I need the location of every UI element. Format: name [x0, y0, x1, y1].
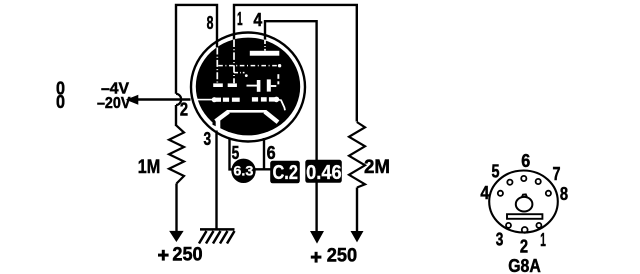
resistor 1M [169, 125, 184, 183]
svg-text:4: 4 [480, 183, 489, 203]
wire hop over input line [176, 94, 181, 105]
heater voltage circle 6.3 [231, 159, 255, 183]
svg-text:8: 8 [560, 184, 568, 204]
svg-text:2M: 2M [364, 156, 390, 178]
svg-text:1: 1 [540, 230, 546, 250]
internal connection specks right [277, 74, 279, 79]
internal dash-dot line B [234, 72, 245, 74]
svg-text:0.46: 0.46 [306, 162, 342, 184]
svg-text:2: 2 [520, 236, 528, 256]
svg-text:0: 0 [56, 92, 65, 112]
wire from hop to 1M [175, 105, 177, 126]
pin1 internal dashed lead [233, 40, 235, 84]
wire 0.46 to +250 arrow [315, 183, 317, 234]
internal dash-dot line A [218, 65, 279, 67]
svg-text:5: 5 [232, 143, 240, 163]
socket center hole with keyway [516, 197, 533, 212]
svg-text:2: 2 [180, 100, 188, 120]
hole 6 [521, 176, 526, 181]
svg-text:1M: 1M [138, 156, 161, 178]
svg-text:4: 4 [253, 10, 262, 30]
svg-text:8: 8 [207, 13, 214, 33]
wire top rail right (pin1 to 2M) [233, 4, 358, 122]
anode plate bar [250, 51, 279, 56]
svg-text:6.3: 6.3 [233, 163, 254, 178]
value box 0.46 [305, 160, 342, 183]
svg-text:–20V: –20V [97, 95, 131, 112]
hole 2 [522, 227, 528, 233]
value box C.2 [270, 161, 300, 184]
tube interior lower-left extension [213, 117, 230, 132]
svg-text:250: 250 [327, 245, 357, 266]
pin8 internal dashed lead [216, 48, 218, 84]
socket slot [507, 214, 542, 219]
hole 4 [498, 191, 503, 196]
wire 1M to +250 arrow [175, 184, 177, 234]
plus sign right [311, 252, 322, 263]
ground [199, 229, 235, 243]
resistor 2M [349, 122, 365, 188]
arrowhead +250 middle [311, 231, 324, 242]
target electrode (trapezoid) [227, 110, 266, 113]
arrowhead +250 left [170, 231, 183, 241]
hole 5 [507, 180, 512, 185]
hole 7 [536, 179, 541, 184]
deflection electrode plates [247, 85, 258, 87]
arrowhead +250 right [351, 231, 363, 241]
socket pin holes [498, 176, 551, 233]
svg-text:1: 1 [237, 9, 243, 29]
svg-text:250: 250 [172, 245, 202, 266]
tube internal electrodes (white) [197, 40, 285, 132]
tube V1 black interior disc [196, 38, 300, 136]
svg-text:6: 6 [267, 143, 276, 163]
hole 8 [546, 191, 551, 196]
arrowhead input (points left) [127, 95, 138, 104]
tube envelope [191, 33, 305, 142]
svg-text:C.2: C.2 [272, 162, 298, 184]
socket pin labels [480, 151, 568, 274]
svg-text:G8A: G8A [508, 256, 541, 274]
grid row middle left (pin2 grid) [197, 99, 213, 101]
wire pin3 to ground [215, 131, 217, 229]
hole 3 [506, 223, 511, 228]
wire input line to pin2 [136, 98, 191, 100]
svg-text:3: 3 [204, 129, 212, 149]
wire pin4 loop to 0.46 [264, 21, 318, 160]
socket G8A outline [489, 171, 558, 233]
wire top rail left (pin8 loop) [175, 4, 218, 94]
svg-text:3: 3 [496, 230, 504, 250]
pin4 internal dashed lead [264, 40, 266, 51]
svg-text:6: 6 [521, 151, 530, 171]
wire heater node to C.2 [253, 168, 271, 170]
svg-text:5: 5 [492, 162, 500, 182]
wire 2M to +250 arrow [356, 188, 358, 234]
grid g dashes upper row [213, 83, 223, 87]
hole 1 [536, 223, 541, 228]
wire pin6 down [263, 138, 265, 169]
wire pin5 to heater circle [230, 138, 234, 169]
grid row middle right [252, 97, 258, 101]
svg-text:7: 7 [553, 164, 561, 184]
plus sign left [158, 250, 169, 261]
